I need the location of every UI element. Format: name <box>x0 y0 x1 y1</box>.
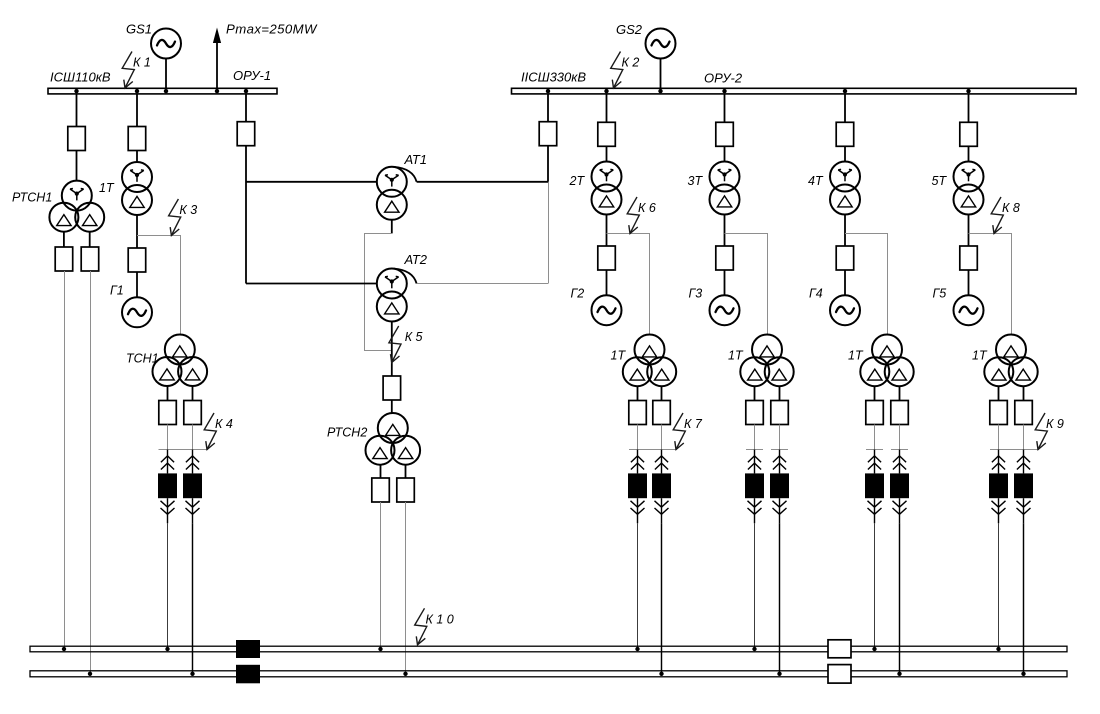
wire aux right to bus B <box>1023 523 1025 674</box>
wire aux output <box>661 386 663 401</box>
drawout breaker aux right <box>652 450 671 524</box>
wire 4Т to switch <box>844 215 846 247</box>
junction 1Т on bus I <box>135 89 139 93</box>
wire Pmax feeder <box>216 42 218 88</box>
svg-text:АТ1: АТ1 <box>404 152 428 167</box>
switch aux left <box>866 401 884 425</box>
wire ТСН1 left to bus A <box>167 523 169 649</box>
wire bus II to breaker 2Т <box>606 94 608 122</box>
junction AT feeder on bus II <box>546 89 550 93</box>
junction РТСН1 on bus I <box>74 89 78 93</box>
transformer ТСН1 <box>153 335 208 387</box>
transformer 3Т <box>710 162 740 215</box>
fault K10 <box>415 608 454 645</box>
wire aux output <box>754 386 756 401</box>
switch РТСН1 left <box>55 247 72 271</box>
switch aux left <box>746 401 764 425</box>
switch Г1 <box>128 248 146 272</box>
junction on bus B <box>88 672 92 676</box>
wire switch to Г5 <box>968 270 970 296</box>
wire ТСН1 right to bus B <box>192 523 194 674</box>
wire tick aux <box>990 449 1038 451</box>
wire to АТ2 left <box>246 283 377 285</box>
fault К6 <box>627 197 656 234</box>
autotransformer АТ2 <box>377 269 407 322</box>
wire aux output <box>899 386 901 401</box>
wire aux left to bus A <box>754 523 756 649</box>
bus A auxiliary 6kV upper <box>30 646 1067 652</box>
drawout breaker ТСН1 right <box>183 450 202 524</box>
drawout breaker aux right <box>890 450 909 524</box>
svg-text:1Т: 1Т <box>728 349 744 363</box>
svg-text:1Т: 1Т <box>611 349 627 363</box>
wire tick aux right <box>771 449 788 451</box>
switch ТСН1 right <box>184 401 202 425</box>
switch ТСН1 left <box>159 401 177 425</box>
wire aux output <box>874 386 876 401</box>
junction on bus B <box>403 672 407 676</box>
wire 2Т to switch <box>606 215 608 247</box>
svg-text:РТСН1: РТСН1 <box>12 191 52 205</box>
wire GS1 to bus <box>165 59 167 89</box>
wire aux right <box>1023 425 1025 450</box>
wire bus II to breaker АТ <box>547 94 549 122</box>
wire tick ТСН1 <box>159 449 208 451</box>
switch Г2 <box>598 246 616 270</box>
bus I section 110kV with ОРУ-1 <box>48 88 277 94</box>
switch aux left <box>629 401 647 425</box>
breaker 3Т <box>716 122 734 146</box>
junction Pmax on bus I <box>215 89 219 93</box>
switch aux right <box>891 401 909 425</box>
wire aux left <box>637 425 639 450</box>
wire aux output <box>1023 386 1025 401</box>
svg-text:Г2: Г2 <box>571 287 585 301</box>
wire switch to Г4 <box>844 270 846 296</box>
junction GS1 on bus I <box>164 89 168 93</box>
tie switch open on bus B <box>828 665 851 684</box>
transformer 1Т <box>122 162 152 215</box>
wire bus II to breaker 4Т <box>844 94 846 122</box>
wire GS2 to bus <box>660 59 662 89</box>
wire breaker to 5Т <box>968 146 970 161</box>
junction 2Т on bus II <box>604 89 608 93</box>
wire aux right <box>779 425 781 450</box>
wire АТ right vertical <box>547 146 549 182</box>
switch РТСН2 right <box>397 478 415 502</box>
transformer 1Т aux of 2Т <box>623 335 676 387</box>
wire РТСН2 output <box>380 465 382 478</box>
wire tick aux left <box>866 449 883 451</box>
svg-text:К 1 0: К 1 0 <box>426 612 454 626</box>
wire tap 2Т to aux 1Т <box>607 234 650 335</box>
wire tap 3Т to aux 1Т <box>725 234 768 335</box>
svg-text:ТСН1: ТСН1 <box>126 352 159 366</box>
transformer 4Т <box>830 162 860 215</box>
wire ТСН1 right <box>192 425 194 450</box>
wire АТ right vertical thin <box>548 182 550 284</box>
svg-text:Г4: Г4 <box>809 287 823 301</box>
wire bus I to breaker АТ <box>245 94 247 122</box>
generator Г5 <box>954 295 984 325</box>
svg-text:1Т: 1Т <box>99 181 115 195</box>
svg-text:GS1: GS1 <box>126 22 152 37</box>
junction 5Т on bus II <box>966 89 970 93</box>
wire 5Т to switch <box>968 215 970 247</box>
wire bus II to breaker 5Т <box>968 94 970 122</box>
svg-text:IIСШ330кВ: IIСШ330кВ <box>521 70 586 85</box>
wire ТСН1 output <box>192 386 194 401</box>
transformer 1Т aux of 5Т <box>984 335 1037 387</box>
wire АТ2 right <box>417 283 548 285</box>
arc АТ2 <box>394 269 417 284</box>
wire 1Т to switch <box>136 215 138 248</box>
generator Г4 <box>830 295 860 325</box>
wire aux output <box>998 386 1000 401</box>
transformer РТСН2 <box>366 413 421 465</box>
wire РТСН2 left to bus A <box>380 502 382 649</box>
wire aux left to bus A <box>998 523 1000 649</box>
junction on bus A <box>872 647 876 651</box>
wire 3Т to switch <box>724 215 726 247</box>
switch aux right <box>771 401 789 425</box>
junction on bus A <box>165 647 169 651</box>
wire РТСН1 right to bus B <box>90 271 92 674</box>
wire РТСН1 left to bus A <box>64 271 66 649</box>
tie switch closed on bus A <box>236 640 260 658</box>
svg-text:К 3: К 3 <box>179 203 197 217</box>
drawout breaker aux left <box>865 450 884 524</box>
wire tap 5Т to aux 1Т <box>969 234 1012 335</box>
wire АТ left vertical <box>245 146 247 284</box>
wire to АТ1 left <box>246 181 377 183</box>
bus II section 330kV with ОРУ-2 <box>512 88 1077 94</box>
junction on bus B <box>659 672 663 676</box>
wire tick aux <box>629 449 676 451</box>
svg-text:К 2: К 2 <box>622 56 640 70</box>
wire breaker to 2Т <box>606 146 608 161</box>
svg-text:GS2: GS2 <box>616 22 643 37</box>
junction on bus A <box>996 647 1000 651</box>
wire aux right <box>899 425 901 450</box>
wire tap 1Т to ТСН1 <box>137 236 181 335</box>
svg-text:IСШ110кВ: IСШ110кВ <box>50 70 111 85</box>
autotransformer АТ1 <box>377 167 407 220</box>
wire breaker to РТСН1 <box>76 151 78 181</box>
generator Г2 <box>592 295 622 325</box>
junction on bus B <box>1021 672 1025 676</box>
wire bus I to breaker 1Т <box>136 94 138 127</box>
drawout breaker aux left <box>745 450 764 524</box>
generator Г3 <box>710 295 740 325</box>
svg-text:4Т: 4Т <box>808 174 824 188</box>
breaker 5Т <box>960 122 978 146</box>
fault K2 <box>611 52 640 89</box>
junction 3Т on bus II <box>722 89 726 93</box>
wire tap 4Т to aux 1Т <box>845 234 888 335</box>
wire breaker to 1Т <box>136 151 138 163</box>
transformer 2Т <box>592 162 622 215</box>
wire aux right to bus B <box>899 523 901 674</box>
wire aux output <box>779 386 781 401</box>
wire tick aux left <box>746 449 763 451</box>
svg-text:К 4: К 4 <box>215 417 233 431</box>
junction on bus A <box>378 647 382 651</box>
wire bus I to breaker РТСН1 <box>76 94 78 127</box>
wire aux right to bus B <box>661 523 663 674</box>
wire РТСН2 right to bus B <box>405 502 407 674</box>
bus B auxiliary 6kV lower <box>30 671 1067 677</box>
wire switch to Г2 <box>606 270 608 296</box>
drawout breaker ТСН1 left <box>158 450 177 524</box>
junction on bus A <box>62 647 66 651</box>
drawout breaker aux right <box>1014 450 1033 524</box>
generator GS2 <box>646 29 676 59</box>
wire switch to Г3 <box>724 270 726 296</box>
svg-text:1Т: 1Т <box>972 349 988 363</box>
wire aux right to bus B <box>779 523 781 674</box>
generator Г1 <box>122 297 152 327</box>
switch РТСН2 left <box>372 478 390 502</box>
wire switch to Г1 <box>136 272 138 297</box>
fault К8 <box>991 197 1020 234</box>
wire АТ1 tertiary link <box>365 234 392 351</box>
svg-text:Г1: Г1 <box>110 284 124 298</box>
fault К9 <box>1035 413 1064 450</box>
wire aux right <box>661 425 663 450</box>
fault К7 <box>673 413 703 450</box>
svg-text:ОРУ-2: ОРУ-2 <box>704 71 743 86</box>
junction on bus B <box>897 672 901 676</box>
fault K5 <box>389 326 423 363</box>
wire РТСН2 output <box>405 465 407 478</box>
transformer 1Т aux of 4Т <box>860 335 913 387</box>
wire РТСН1 right output <box>89 232 91 247</box>
switch aux right <box>1015 401 1033 425</box>
svg-text:3Т: 3Т <box>688 174 704 188</box>
junction 4Т on bus II <box>843 89 847 93</box>
breaker РТСН1 <box>68 127 86 151</box>
wire ТСН1 left <box>167 425 169 450</box>
wire tick aux right <box>891 449 908 451</box>
svg-text:Pmax=250MW: Pmax=250MW <box>226 22 318 37</box>
svg-text:2Т: 2Т <box>569 174 586 188</box>
svg-text:К 9: К 9 <box>1046 417 1064 431</box>
tie switch open on bus A <box>828 640 851 658</box>
breaker АТ left <box>237 122 255 146</box>
svg-text:К 7: К 7 <box>684 417 703 431</box>
fault K4 <box>204 413 233 450</box>
svg-text:5Т: 5Т <box>932 174 948 188</box>
generator GS1 <box>151 29 181 59</box>
breaker 1Т <box>128 127 146 151</box>
breaker 2Т <box>598 122 616 146</box>
switch Г3 <box>716 246 734 270</box>
wire aux output <box>637 386 639 401</box>
wire aux left to bus A <box>874 523 876 649</box>
svg-text:АТ2: АТ2 <box>404 252 428 267</box>
transformer 5Т <box>954 162 984 215</box>
junction on bus A <box>635 647 639 651</box>
junction GS2 on bus II <box>658 89 662 93</box>
wire aux left to bus A <box>637 523 639 649</box>
svg-text:Г5: Г5 <box>933 287 947 301</box>
fault K1 <box>122 52 151 89</box>
junction on bus B <box>190 672 194 676</box>
svg-text:1Т: 1Т <box>848 349 864 363</box>
transformer РТСН1 <box>49 181 104 232</box>
breaker 4Т <box>836 122 854 146</box>
wire АТ1 right <box>417 181 548 183</box>
fault K3 <box>169 199 198 236</box>
wire breaker to 4Т <box>844 146 846 161</box>
tie switch closed on bus B <box>236 665 260 684</box>
wire bus II to breaker 3Т <box>724 94 726 122</box>
transformer 1Т aux of 3Т <box>740 335 793 387</box>
svg-text:К 8: К 8 <box>1002 201 1020 215</box>
wire aux left <box>754 425 756 450</box>
junction on bus A <box>752 647 756 651</box>
svg-text:К 5: К 5 <box>405 330 423 344</box>
wire aux left <box>874 425 876 450</box>
arc АТ1 <box>394 167 417 182</box>
switch Г4 <box>836 246 854 270</box>
svg-text:К 6: К 6 <box>638 201 656 215</box>
wire breaker to 3Т <box>724 146 726 161</box>
switch aux left <box>990 401 1008 425</box>
arrow Pmax <box>213 28 221 44</box>
switch Г5 <box>960 246 978 270</box>
switch aux right <box>653 401 671 425</box>
wire to РТСН2 <box>391 400 393 414</box>
svg-text:К 1: К 1 <box>133 56 151 70</box>
junction on bus B <box>777 672 781 676</box>
wire АТ2 output <box>391 322 393 377</box>
breaker РТСН2 <box>383 376 401 400</box>
drawout breaker aux right <box>770 450 789 524</box>
wire aux left <box>998 425 1000 450</box>
switch РТСН1 right <box>81 247 99 271</box>
wire ТСН1 output <box>167 386 169 401</box>
svg-text:РТСН2: РТСН2 <box>327 426 367 440</box>
svg-text:ОРУ-1: ОРУ-1 <box>233 68 271 83</box>
drawout breaker aux left <box>628 450 647 524</box>
breaker АТ right <box>539 122 557 146</box>
svg-text:Г3: Г3 <box>689 287 703 301</box>
wire РТСН1 left output <box>63 232 65 247</box>
junction AT feeder on bus I <box>244 89 248 93</box>
wire АТ1 tertiary <box>391 220 393 234</box>
drawout breaker aux left <box>989 450 1008 524</box>
